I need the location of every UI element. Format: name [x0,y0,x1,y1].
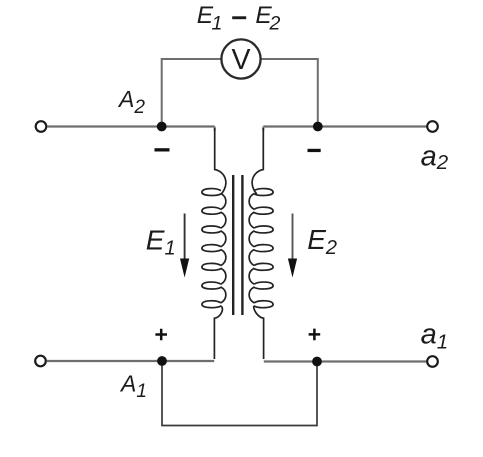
wire bottom-right horizontal from corner through node to terminal [264,360,427,362]
transformer T1 primary winding (left) [202,128,226,359]
wire top-left corner vertical down to winding lead [214,127,216,132]
node A2 junction dot [157,122,167,132]
svg-text:V: V [231,44,250,76]
wire voltmeter loop left: node A2 up and right to voltmeter [162,59,222,127]
svg-text:A2: A2 [117,86,145,118]
svg-text:a1: a1 [421,319,449,354]
svg-text:E1: E1 [146,224,176,259]
polarity minus at node A2 [155,148,170,151]
arrow E1 direction (down) [180,214,189,278]
node a1 junction dot [312,357,322,367]
wire voltmeter loop right: voltmeter right to corner and down to node a2 [261,59,318,127]
transformer T1 secondary winding (right) [249,128,273,359]
node a2 junction dot [313,122,323,132]
terminal A1 (open circle bottom-left) [35,356,46,367]
wire bottom U-link from node A1 down, right, up to node a1 [162,361,317,426]
wire top-right corner vertical down to winding lead [262,127,264,132]
node A1 junction dot [157,356,167,366]
terminal a2 (open circle top-right) [427,121,438,132]
wire top-right horizontal from corner through node to terminal [263,125,426,127]
wire bottom-left horizontal from terminal to corner [47,360,214,362]
wire top-left horizontal from terminal to corner [48,125,215,127]
svg-text:E2: E2 [307,224,337,259]
polarity plus at node A1 [155,329,167,341]
terminal a1 (open circle bottom-right) [427,356,438,367]
terminal A2 (open circle top-left) [36,121,47,132]
transformer T1 core [233,175,242,315]
polarity minus at node a2 [308,149,321,152]
svg-text:A1: A1 [119,370,147,402]
svg-text:a2: a2 [421,141,449,175]
arrow E2 direction (down) [288,214,297,278]
voltmeter U1 (V) [221,39,260,78]
polarity plus at node a1 [309,329,321,341]
